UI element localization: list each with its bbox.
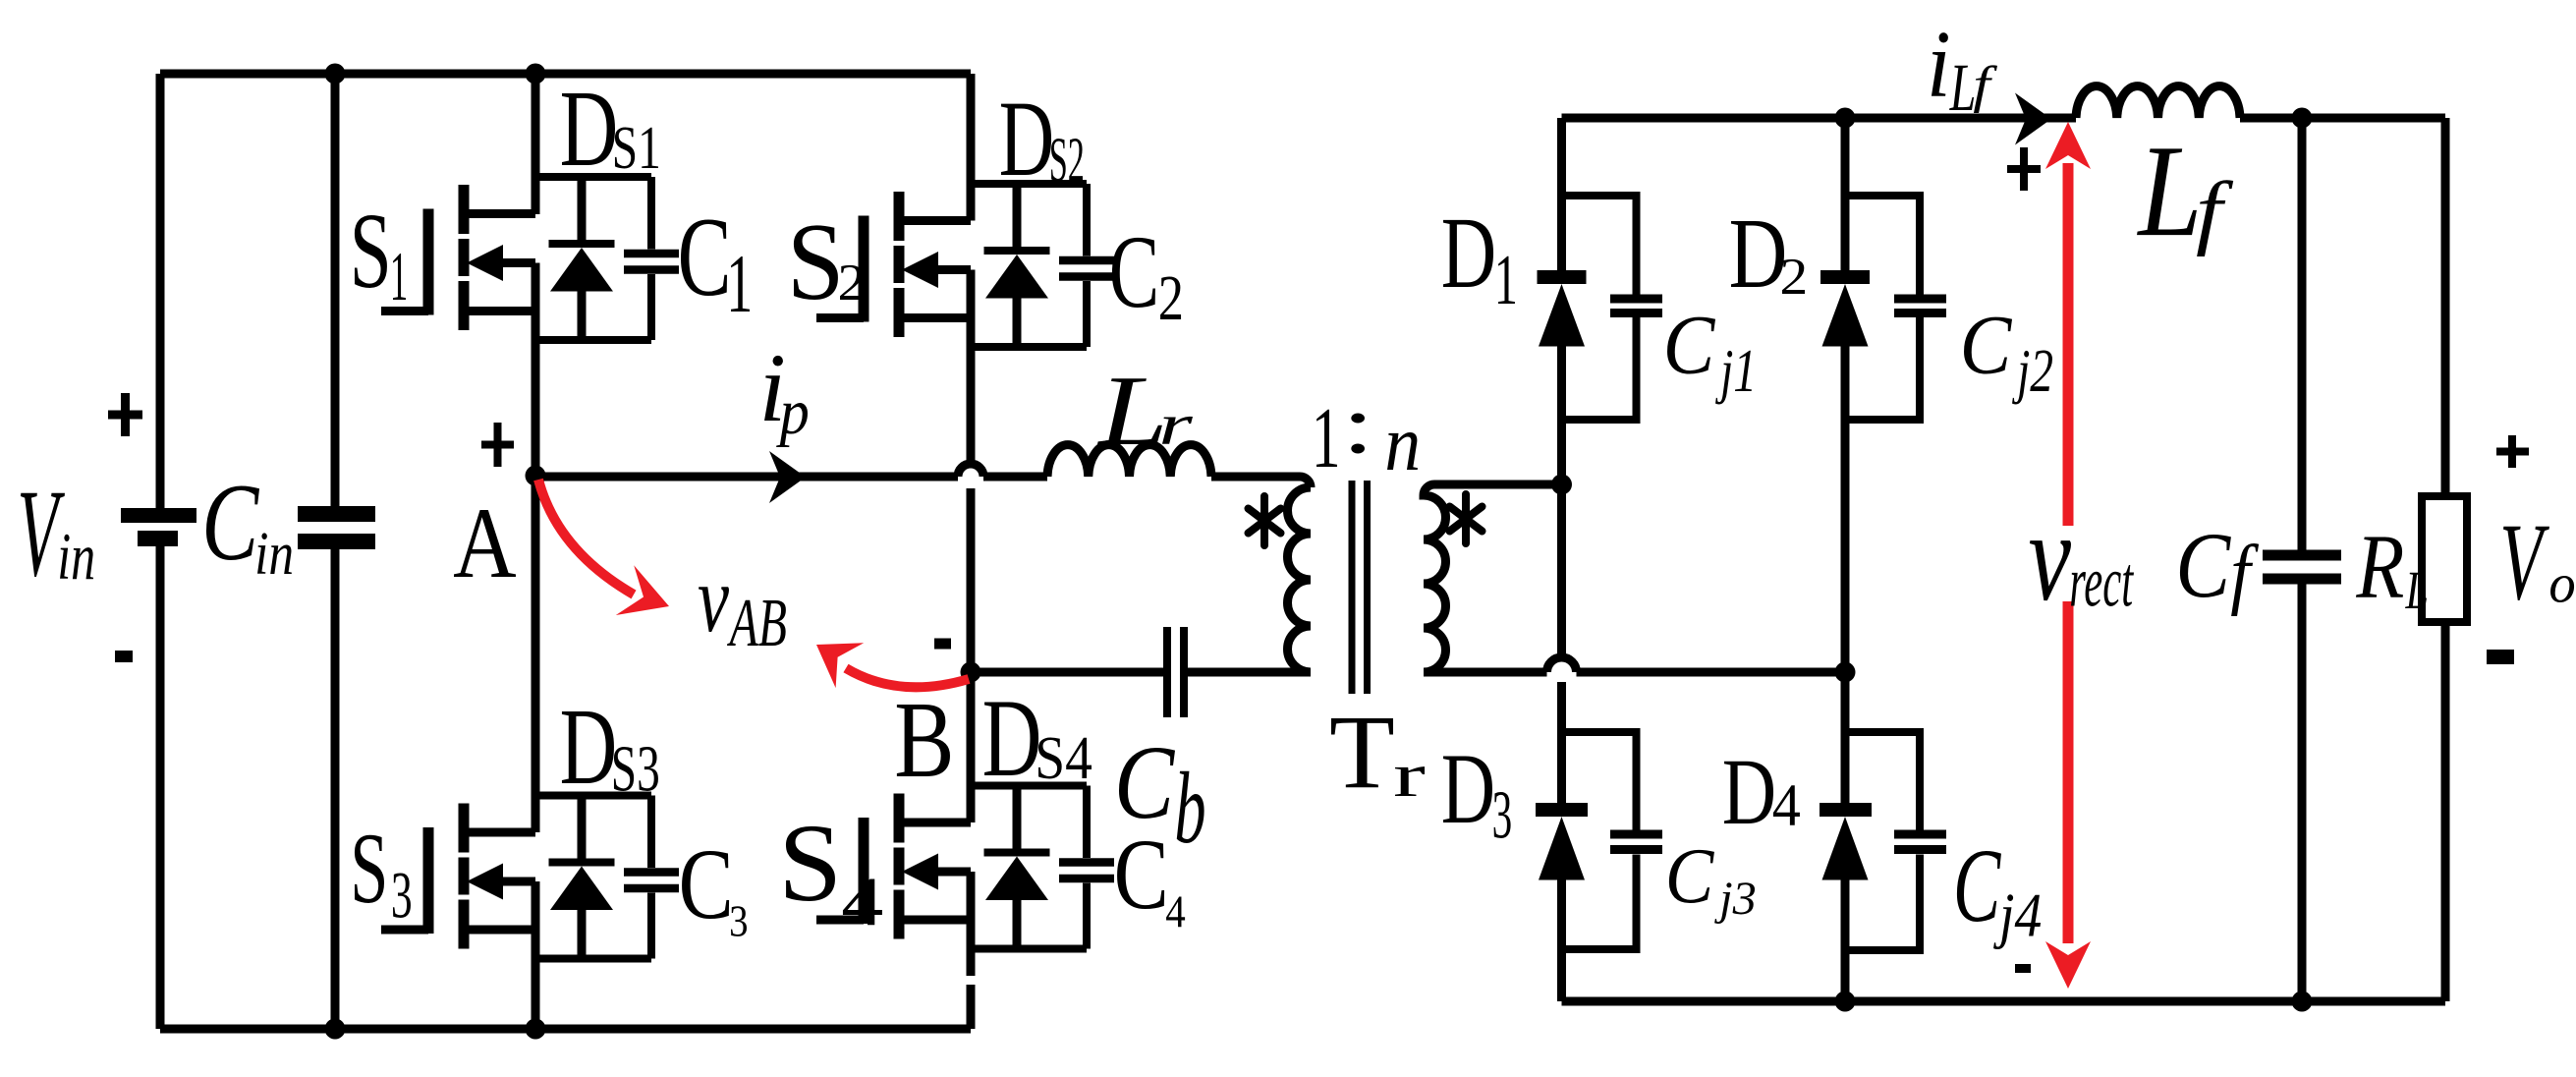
svg-text:3: 3 bbox=[391, 857, 413, 932]
svg-text:S: S bbox=[778, 802, 842, 925]
plus sign Vin bbox=[108, 393, 142, 436]
junction dot secondary top / D1 leg bbox=[1551, 475, 1572, 495]
diode DS1 bbox=[549, 177, 615, 340]
svg-text:v: v bbox=[2029, 486, 2072, 628]
capacitor Cj1 bbox=[1562, 196, 1663, 420]
wire rectifier top rail bbox=[1562, 114, 2446, 123]
wire rectifier bottom rail bbox=[1562, 997, 2446, 1006]
svg-text:f: f bbox=[2230, 529, 2259, 617]
svg-text:2: 2 bbox=[838, 255, 867, 312]
svg-text:1: 1 bbox=[726, 238, 753, 330]
node A bbox=[526, 466, 546, 486]
battery Vin bbox=[121, 508, 196, 546]
svg-text::: : bbox=[1342, 378, 1373, 471]
svg-text:b: b bbox=[1174, 752, 1205, 865]
diode DS4 bbox=[984, 786, 1050, 949]
svg-text:C: C bbox=[1665, 833, 1715, 920]
diode D2 bbox=[1820, 277, 1870, 347]
wire RL top lead bbox=[2441, 118, 2450, 496]
wire D1/D3 rectifier leg bbox=[1557, 118, 1566, 1001]
svg-text:D: D bbox=[999, 79, 1054, 198]
minus sign Vo bbox=[2487, 650, 2514, 664]
wire S1/S3 bridge leg upper bbox=[532, 74, 540, 214]
wire Cb to node B bbox=[971, 668, 1163, 677]
minus sign vrect bbox=[2015, 964, 2031, 973]
svg-text:S: S bbox=[787, 201, 845, 323]
red arrow vrect (double headed) bbox=[2045, 122, 2091, 989]
wire secondary bottom with hop over D1 leg bbox=[1424, 657, 1845, 672]
svg-text:D: D bbox=[560, 69, 619, 190]
svg-text:4: 4 bbox=[841, 864, 883, 940]
svg-text:n: n bbox=[1384, 399, 1421, 487]
svg-text:2: 2 bbox=[1780, 249, 1809, 306]
polarity mark secondary bbox=[1450, 494, 1483, 543]
svg-text:o: o bbox=[2548, 554, 2575, 615]
wire ip: node A to Lr with hop over S2 leg bbox=[535, 464, 1047, 477]
svg-text:L: L bbox=[1096, 356, 1168, 467]
svg-text:A: A bbox=[453, 487, 516, 599]
svg-text:C: C bbox=[1663, 297, 1716, 391]
transistor S2 bbox=[816, 192, 971, 337]
svg-text:1: 1 bbox=[390, 239, 409, 315]
wire S1/S3 bridge leg middle (node A) bbox=[532, 263, 540, 833]
wire S2/S4 bridge leg upper bbox=[967, 74, 976, 221]
svg-text:4: 4 bbox=[1772, 773, 1801, 839]
svg-text:1: 1 bbox=[1312, 391, 1341, 486]
wire Vin positive lead bbox=[156, 74, 165, 508]
svg-text:rect: rect bbox=[2069, 541, 2134, 621]
svg-text:f: f bbox=[2196, 165, 2234, 257]
svg-text:L: L bbox=[1949, 50, 1976, 125]
svg-text:D: D bbox=[1729, 198, 1788, 310]
svg-text:L: L bbox=[2137, 118, 2203, 263]
wire DS1/C1 parallel branch box bbox=[539, 177, 651, 340]
wire bottom rail bbox=[160, 1025, 971, 1034]
svg-text:D: D bbox=[1441, 197, 1496, 310]
wire top rail bbox=[160, 70, 971, 79]
current arrow ip bbox=[769, 451, 806, 503]
wire DS4/C4 parallel branch box bbox=[975, 786, 1087, 949]
svg-text:3: 3 bbox=[729, 896, 748, 946]
wire Lr to transformer primary bbox=[1211, 477, 1311, 487]
junction dot secondary bottom / D2 leg bbox=[1835, 662, 1856, 683]
junction dot bottom rail at S3 leg bbox=[526, 1019, 546, 1040]
transistor S4 bbox=[816, 794, 971, 939]
svg-text:D: D bbox=[1722, 739, 1776, 844]
polarity mark primary bbox=[1249, 496, 1281, 545]
wire S2/S4 bridge leg middle (node B) bbox=[967, 270, 976, 823]
diode DS3 bbox=[549, 796, 615, 959]
svg-text:C: C bbox=[1953, 828, 2002, 944]
svg-text:3: 3 bbox=[1492, 777, 1513, 853]
current arrow iLf bbox=[2015, 93, 2051, 145]
minus sign Vin bbox=[115, 651, 133, 662]
capacitor Cj3 bbox=[1562, 732, 1663, 949]
svg-text:C: C bbox=[1960, 297, 2013, 391]
svg-text:S3: S3 bbox=[611, 732, 660, 805]
svg-text:T: T bbox=[1329, 695, 1395, 811]
plus sign Vo bbox=[2496, 435, 2529, 468]
svg-text:C: C bbox=[201, 462, 259, 584]
capacitor C3 bbox=[624, 873, 679, 889]
diode D1 bbox=[1538, 277, 1587, 347]
capacitor Cb bbox=[1167, 627, 1184, 717]
red arrow vAB toward node B bbox=[816, 643, 969, 688]
svg-text:S1: S1 bbox=[612, 115, 661, 182]
svg-text:in: in bbox=[57, 519, 95, 594]
wire primary bottom to Cb bbox=[1188, 668, 1311, 677]
diode D4 bbox=[1820, 810, 1872, 880]
wire Cin top lead bbox=[331, 74, 340, 506]
svg-text:i: i bbox=[1927, 12, 1951, 118]
plus sign vrect bbox=[2007, 147, 2041, 191]
plus sign node A bbox=[481, 423, 514, 467]
capacitor C4 bbox=[1059, 863, 1114, 879]
svg-text:2: 2 bbox=[1158, 262, 1184, 334]
svg-text:j3: j3 bbox=[1713, 873, 1757, 925]
transistor S3 bbox=[381, 804, 535, 949]
svg-text:j2: j2 bbox=[2012, 338, 2053, 405]
capacitor Cj2 bbox=[1845, 196, 1946, 420]
red arrow vAB from node A bbox=[538, 480, 669, 615]
node B bbox=[961, 662, 981, 683]
svg-text:D: D bbox=[1441, 733, 1495, 845]
wire S1/S3 bridge leg lower bbox=[532, 881, 540, 1029]
svg-text:v: v bbox=[698, 546, 729, 652]
svg-text:p: p bbox=[776, 376, 810, 448]
svg-text:r: r bbox=[1158, 392, 1194, 457]
transformer Tr primary winding bbox=[1288, 487, 1312, 672]
svg-text:in: in bbox=[254, 521, 294, 588]
capacitor Cf bbox=[2263, 555, 2341, 579]
svg-text:j1: j1 bbox=[1715, 338, 1757, 405]
svg-text:D: D bbox=[982, 677, 1042, 800]
svg-text:B: B bbox=[894, 680, 954, 801]
svg-text:AB: AB bbox=[727, 586, 787, 661]
svg-text:C: C bbox=[678, 195, 732, 319]
inductor Lr bbox=[1047, 445, 1211, 477]
wire S2/S4 bridge leg lower bbox=[967, 872, 976, 1029]
svg-text:j4: j4 bbox=[1993, 879, 2042, 949]
capacitor C2 bbox=[1059, 260, 1114, 277]
wire RL bottom lead bbox=[2441, 622, 2450, 1001]
svg-text:C: C bbox=[679, 828, 734, 940]
wire DS2/C2 parallel branch box bbox=[975, 184, 1087, 347]
svg-text:D: D bbox=[560, 687, 618, 808]
transistor S1 bbox=[381, 185, 535, 330]
svg-text:4: 4 bbox=[1165, 886, 1186, 937]
wire Cf bottom lead bbox=[2298, 585, 2307, 1002]
diode DS2 bbox=[984, 184, 1050, 347]
capacitor Cin bbox=[298, 506, 375, 549]
junction dot bottom rail at D4 leg bbox=[1835, 992, 1856, 1012]
svg-text:r: r bbox=[1393, 740, 1426, 810]
svg-text:S4: S4 bbox=[1035, 725, 1092, 792]
svg-text:1: 1 bbox=[1494, 240, 1518, 319]
svg-text:S2: S2 bbox=[1049, 125, 1085, 196]
junction dot top rail at Cf bbox=[2292, 108, 2313, 129]
junction dot top rail at D2 leg bbox=[1835, 108, 1856, 129]
svg-text:S: S bbox=[350, 191, 392, 311]
svg-text:C: C bbox=[1109, 214, 1159, 329]
junction dot bottom rail at Cin bbox=[325, 1019, 346, 1040]
junction dot top rail at S1 leg bbox=[526, 64, 546, 85]
capacitor C1 bbox=[624, 254, 679, 270]
transformer core bbox=[1352, 481, 1368, 694]
junction dot top rail at Cin bbox=[325, 64, 346, 85]
svg-text:f: f bbox=[1973, 57, 1997, 114]
svg-text:S: S bbox=[350, 813, 388, 925]
minus sign node B bbox=[934, 639, 951, 650]
junction dot bottom rail at Cf bbox=[2292, 992, 2313, 1012]
wire Vin negative lead bbox=[156, 546, 165, 1029]
resistor RL bbox=[2422, 496, 2467, 622]
wire Cf top lead bbox=[2298, 118, 2307, 550]
diode D3 bbox=[1536, 810, 1588, 880]
wire DS3/C3 parallel branch box bbox=[539, 796, 651, 959]
wire Cin bottom lead bbox=[331, 549, 340, 1029]
svg-text:V: V bbox=[2499, 501, 2549, 623]
capacitor Cj4 bbox=[1845, 732, 1946, 950]
svg-text:C: C bbox=[2175, 513, 2231, 617]
transformer Tr secondary winding bbox=[1424, 484, 1562, 672]
inductor Lf bbox=[2076, 86, 2240, 118]
wire D2/D4 rectifier leg bbox=[1841, 118, 1850, 1001]
svg-text:R: R bbox=[2356, 517, 2405, 618]
svg-text:C: C bbox=[1114, 725, 1176, 841]
svg-text:L: L bbox=[2405, 560, 2429, 620]
